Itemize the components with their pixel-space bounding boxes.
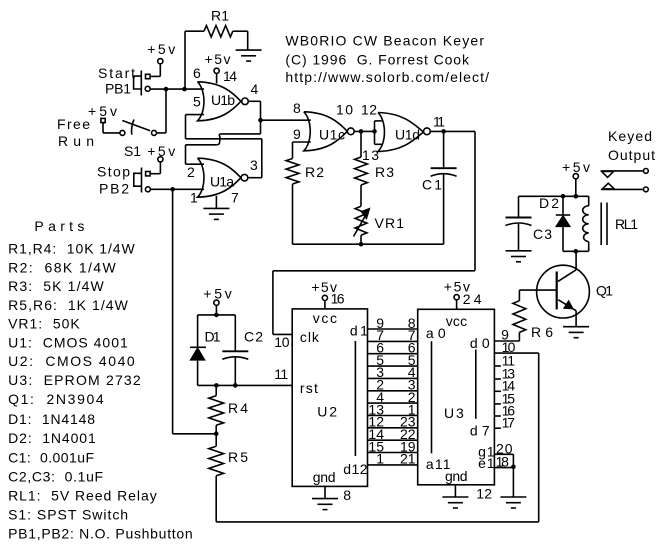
bus wire 9-8 [368,328,418,330]
U3 d0-d7 line [475,350,477,419]
svg-text:17: 17 [502,415,516,431]
wire +5v down [215,305,217,315]
bus wire 14-22 [368,439,418,441]
switch S1 [120,130,125,135]
+5v terminal (U3) [454,295,459,300]
ground (R1) [236,50,262,61]
svg-text:D2: D2 [539,195,559,211]
wire to PB1 upper contact [150,75,160,77]
stub pin 13 [494,378,501,380]
wire to U1a pin 2 [186,163,205,165]
node U1c output [359,129,364,134]
resistor R6 [513,301,526,333]
wire R2 down to rail [292,184,294,244]
wire feedback B run [186,138,262,140]
svg-text:11: 11 [274,366,288,382]
svg-text:Q1: Q1 [596,283,613,299]
transistor Q1 [537,265,590,318]
svg-text:R5: R5 [228,449,248,465]
svg-text:RL1: 5V Reed Relay: RL1: 5V Reed Relay [8,487,157,503]
svg-text:6: 6 [193,65,201,81]
+5v terminal (PB1) [158,59,163,64]
svg-text:4: 4 [251,81,259,97]
+5v terminal (U2) [322,295,327,300]
node D2 top [561,194,566,199]
wire crossover hop [216,134,221,145]
svg-text:Output: Output [608,147,655,163]
svg-text:+5v: +5v [203,285,231,301]
svg-text:(C) 1996 G. Forrest Cook: (C) 1996 G. Forrest Cook [285,51,470,67]
wire S1 up to PB1 line [165,89,167,133]
potentiometer VR1 [355,206,367,235]
stub pin 11 [494,365,501,367]
node R1 feedback junction [182,87,187,92]
stub pin 17 [494,427,501,429]
nor gate U1a [198,158,241,197]
diode D2 [562,196,564,214]
svg-text:d12: d12 [343,461,368,477]
wire feedback A upper run [222,133,261,135]
svg-text:12: 12 [476,485,492,501]
bus wire 7-7 [368,340,418,342]
svg-text:1: 1 [190,190,198,206]
wire +5v down [575,179,577,197]
wire PB2 node down to R4/R5 junction [172,189,174,433]
svg-text:9: 9 [293,126,301,142]
wire rst rail [198,384,293,386]
U3 a0-a11 line [431,341,433,453]
svg-text:Stop: Stop [97,164,130,180]
svg-text:16: 16 [331,291,345,307]
svg-text:14: 14 [223,68,237,84]
svg-text:Q1: 2N3904: Q1: 2N3904 [8,391,104,407]
wire R1 left [185,30,204,32]
relay contact lower [601,188,644,190]
wire R6 top [518,290,520,301]
wire U1b output [249,100,261,102]
wire PB1 to U1b pin6 [150,88,204,90]
wire pin 18 [494,467,513,469]
bus wire 6-6 [368,353,418,355]
capacitor C1 [431,168,457,176]
IC U2 (CMOS 4040) [292,309,367,487]
node R4 top [214,383,219,388]
svg-text:C2,C3: 0.1uF: C2,C3: 0.1uF [8,468,103,484]
svg-text:21: 21 [400,451,416,467]
wire osc output down to clk [272,271,274,335]
svg-text:+5v: +5v [562,159,590,175]
wire node to C1 [443,131,445,168]
wire feedback A lower run [186,144,217,146]
U1b output bubble [242,98,249,105]
wire R1 left vertical to U1b pin6 node [184,31,186,89]
wire U1b output down [260,101,262,134]
svg-text:U2: U2 [317,404,337,420]
wire +5v to U2 vcc [324,301,326,309]
resistor R2 [286,159,299,185]
ground (U2) [312,499,338,510]
stub pin 14 [494,390,501,392]
wire +5v to PB1 [159,64,161,77]
svg-text:+5v: +5v [147,41,175,57]
svg-text:8: 8 [343,487,351,503]
wire U3 pin9 to R6 [494,340,519,342]
svg-text:D1: 1N4148: D1: 1N4148 [8,411,95,427]
wire U1d output [430,130,475,132]
wire bottom rail [216,521,539,523]
pushbutton PB1 [146,74,151,78]
svg-text:clk: clk [300,329,320,345]
wire +5v to PB2 [159,162,161,174]
wire osc output down [474,131,476,270]
svg-text:7: 7 [231,190,239,206]
svg-text:RL1: RL1 [615,216,638,232]
pushbutton PB2 [146,172,151,176]
wire g1/e1 to ground [512,454,514,497]
svg-text:12: 12 [361,102,377,118]
svg-text:WB0RIO CW Beacon Keyer: WB0RIO CW Beacon Keyer [285,33,484,49]
wire U1a output [248,177,262,179]
U1d input bracket pins 12/13 [374,121,376,144]
bus wire 13-1 [368,415,418,417]
svg-text:5: 5 [193,94,201,110]
svg-text:2: 2 [187,164,195,180]
relay core bar 1 [600,203,602,246]
svg-text:+5v: +5v [205,51,231,67]
svg-text:C1: 0.001uF: C1: 0.001uF [8,449,94,465]
wire R4 to R5 [215,425,217,446]
ground (Q1) [563,327,589,338]
wire U1c pin 9 [293,141,311,143]
svg-text:PB1,PB2: N.O. Pushbutton: PB1,PB2: N.O. Pushbutton [8,526,193,542]
wire U3 pin10 [494,352,538,354]
ground (g1/e1) [500,497,526,508]
svg-text:D2: 1N4001: D2: 1N4001 [8,430,96,446]
wire U1c out to U1d in [354,130,374,132]
+5v terminal (U1b) [214,68,219,73]
U2 d1-d12 line [354,341,356,456]
wire pin 20 [494,453,513,455]
diode D1 [197,315,199,347]
svg-text:vcc: vcc [313,310,337,326]
node C2 bottom [233,383,238,388]
wire U1a output up [261,139,263,178]
relay core bar 2 [606,203,608,246]
wire U1a pin7 to ground [215,196,217,209]
ground (U1a) [203,208,229,219]
node U1b out / U1c in [258,118,263,123]
svg-text:U3: EPROM 2732: U3: EPROM 2732 [8,372,141,388]
+5v terminal (relay) [573,174,578,179]
U1d output bubble [424,128,431,135]
svg-text:S1: S1 [124,143,141,159]
wire node to R3 [360,131,362,157]
svg-text:1: 1 [376,451,384,467]
svg-text:U1a: U1a [210,174,234,190]
wire R6 to Q1 base [519,289,556,291]
relay coil RL1 [588,196,590,206]
wire U2 gnd [324,486,326,498]
wire oscillator bottom rail [293,243,444,245]
svg-text:PB1: PB1 [105,81,131,97]
U1a output bubble [241,174,248,181]
wire Q1 emitter to ground [575,311,577,327]
svg-text:rst: rst [300,380,318,396]
svg-text:PB2: PB2 [99,181,129,197]
stub pin 16 [494,415,501,417]
+5v terminal (D1/C2) [214,300,219,305]
resistor R4 [209,396,224,426]
ground (C3) [506,251,532,262]
ground (U3) [442,497,468,508]
node g1/e1 [511,465,516,470]
svg-text:3: 3 [250,157,258,173]
svg-text:R4: R4 [228,400,248,416]
node pin 11 [441,129,446,134]
svg-text:11: 11 [433,114,445,130]
node PB2 junction [170,187,175,192]
svg-text:R5,R6: 1K 1/4W: R5,R6: 1K 1/4W [8,297,128,313]
svg-text:gnd: gnd [313,469,336,485]
wire PB2 to U1a pin1 [150,188,204,190]
svg-text:VR1: VR1 [375,215,405,231]
svg-text:C2: C2 [244,329,263,345]
svg-text:e1: e1 [478,455,495,471]
svg-text:8: 8 [293,100,301,116]
wire to R4 [215,385,217,395]
bus wire 12-23 [368,427,418,429]
bus wire 4-2 [368,402,418,404]
wire to U1c pin 8 [261,119,311,121]
svg-text:U1: CMOS 4001: U1: CMOS 4001 [8,335,128,351]
node +5v rail [574,194,579,199]
nor gate U1c [304,112,347,151]
+5v terminal (PB2) [158,157,163,162]
node VR1 bottom [359,242,364,247]
bus wire 3-4 [368,377,418,379]
resistor R1 [204,26,233,37]
nor gate U1d [378,113,423,152]
svg-text:U1b: U1b [211,92,235,108]
wire bottom rail up to U3 pin10 [538,353,540,522]
capacitor C2 [234,315,236,351]
svg-text:S1: SPST Switch: S1: SPST Switch [8,507,128,523]
svg-text:R3: 5K 1/4W: R3: 5K 1/4W [8,278,104,294]
svg-text:http://www.solorb.com/elect/: http://www.solorb.com/elect/ [285,69,489,85]
wire feedback B up [185,115,187,139]
wire relay bottom rail [563,250,589,252]
wire Q1 collector [575,251,577,269]
IC U3 (EPROM 2732) [418,309,495,485]
capacitor C3 [518,196,520,217]
wire relay top rail [519,195,589,197]
svg-text:D1: D1 [205,329,221,345]
stub pin 15 [494,403,501,405]
wire osc output across [273,270,475,272]
wire C1 to rail [443,175,445,245]
svg-text:Free: Free [57,116,90,132]
wire U3 gnd [454,485,456,497]
node PB1/S1 junction [164,87,169,92]
svg-text:U1d: U1d [395,127,420,143]
wire VR1 to rail [360,235,362,244]
svg-text:R3: R3 [375,164,394,180]
nor gate U1b [198,82,241,121]
bus wire 5-5 [368,365,418,367]
wire R1 right down to ground [247,31,249,50]
node R4/R5 junction [214,432,219,437]
bus wire 15-19 [368,452,418,454]
wire to PB2 upper contact [150,173,160,175]
svg-text:vcc: vcc [446,313,467,329]
node Q1 collector [574,249,579,254]
resistor R5 [209,446,224,476]
resistor R3 [355,157,368,185]
svg-text:10: 10 [274,334,290,350]
bus wire 1-21 [368,464,418,466]
svg-text:R1,R4: 10K 1/4W: R1,R4: 10K 1/4W [8,241,135,257]
+5v square terminal (S1) [101,118,105,122]
bus wire 2-3 [368,390,418,392]
svg-text:+5v: +5v [88,103,117,119]
wire feedback A down [185,145,187,164]
node U1d input bracket [372,129,377,134]
svg-text:gnd: gnd [445,468,468,484]
relay contact upper [601,170,644,172]
wire R1 right [233,30,248,32]
svg-text:R2: R2 [305,164,324,180]
wire +5v to U3 vcc [456,300,458,310]
svg-text:C1: C1 [422,177,442,193]
svg-text:13: 13 [362,147,379,163]
wire to U1b pin 5 [186,114,205,116]
svg-text:VR1: 50K: VR1: 50K [8,316,80,332]
wire R5 down [215,476,217,522]
wire S1 right contact [157,132,167,134]
svg-text:R2: 68K 1/4W: R2: 68K 1/4W [8,259,116,275]
svg-text:Keyed: Keyed [608,128,652,144]
wire +5v to U1b pin14 [216,73,218,83]
svg-text:R1: R1 [211,8,229,24]
svg-text:Run: Run [58,133,94,149]
wire pin9 to R2 [292,142,294,159]
svg-text:10: 10 [336,102,353,118]
svg-text:C3: C3 [533,226,552,242]
wire R3 to VR1 [360,185,362,206]
svg-text:U2: CMOS 4040: U2: CMOS 4040 [8,353,135,369]
node +5v rail [214,313,219,318]
svg-text:U3: U3 [444,405,464,421]
wire into U2 clk [273,333,292,335]
svg-text:U1c: U1c [319,127,345,143]
svg-text:Parts: Parts [34,218,84,234]
wire R6 bottom [518,332,520,341]
wire D1/C2 top rail [198,314,236,316]
wire to S1 left contact [103,132,120,134]
U1c output bubble [347,128,354,135]
wire S1 +5v down [102,123,104,133]
wire junction to PB2 line [173,433,217,435]
